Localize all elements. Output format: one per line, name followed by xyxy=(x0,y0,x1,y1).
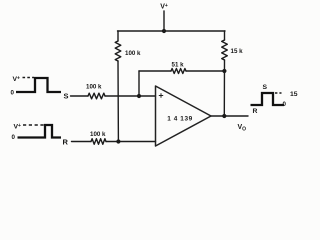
wire S input lead xyxy=(71,95,89,97)
svg-text:S: S xyxy=(263,84,268,91)
junction dot at V+ rail xyxy=(162,29,166,33)
wire left branch lower (crosses S line, joins R line) xyxy=(117,61,119,142)
wire V+ stub xyxy=(163,11,165,31)
wire R input lead xyxy=(72,141,92,143)
plus mark at non-inverting input xyxy=(159,93,163,97)
svg-text:0: 0 xyxy=(11,90,15,97)
svg-text:100 k: 100 k xyxy=(86,84,102,91)
S input pulse waveform xyxy=(16,78,61,92)
resistor 100k pull-up xyxy=(115,41,121,61)
wire R to inverting input xyxy=(106,141,156,143)
wire S to non-inverting input xyxy=(105,95,156,97)
junction dot feedback / S line xyxy=(137,94,141,98)
resistor 15k xyxy=(222,40,228,60)
junction dot pull-up / R line xyxy=(116,139,120,143)
R input waveform dashed level xyxy=(23,124,45,126)
comparator U1 1/4 139 xyxy=(156,86,212,146)
wire feedback drop to + input xyxy=(138,71,140,96)
svg-text:51 k: 51 k xyxy=(172,62,185,69)
wire left branch upper xyxy=(117,31,119,41)
svg-text:S: S xyxy=(64,92,69,101)
wire right branch lower xyxy=(223,60,225,116)
output waveform dashed level xyxy=(275,92,282,94)
resistor 51k xyxy=(171,69,186,74)
junction dot output xyxy=(222,114,226,118)
svg-text:100 k: 100 k xyxy=(125,50,141,57)
svg-text:0: 0 xyxy=(12,134,16,141)
resistor 100k (R input) xyxy=(91,139,106,145)
wire 51k feedback right segment xyxy=(186,70,224,72)
S input waveform dashed level xyxy=(23,77,35,79)
wire top rail xyxy=(118,30,226,32)
svg-text:15 k: 15 k xyxy=(231,48,244,55)
svg-text:R: R xyxy=(63,138,69,147)
wire right branch upper xyxy=(224,31,226,40)
svg-text:15: 15 xyxy=(290,91,298,98)
svg-text:100 k: 100 k xyxy=(90,131,106,138)
svg-text:R: R xyxy=(253,108,258,115)
junction dot 15k / feedback xyxy=(222,69,226,73)
R input pulse waveform xyxy=(18,125,62,138)
wire output xyxy=(211,115,248,117)
output pulse waveform xyxy=(251,93,285,105)
svg-text:1 4 139: 1 4 139 xyxy=(167,116,193,123)
wire 51k feedback left segment xyxy=(139,70,171,72)
resistor 100k (S input) xyxy=(88,93,105,99)
